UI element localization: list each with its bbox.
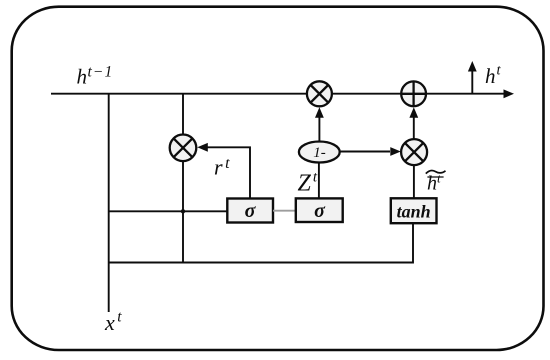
svg-text:σ: σ xyxy=(245,200,257,222)
arrowhead: main h output xyxy=(504,89,515,98)
wire: x^t vertical xyxy=(108,94,110,312)
junction dot xyxy=(181,209,185,213)
sigma box 2 xyxy=(296,198,343,222)
svg-text:1-: 1- xyxy=(313,145,326,161)
sigma box 1 xyxy=(227,199,273,223)
wire: arrow h-tilde gate up to adder xyxy=(413,114,415,139)
multiplier r-gate circle xyxy=(170,135,197,162)
wire: h^t up arrow xyxy=(471,70,473,94)
ellipse 1- xyxy=(299,142,340,163)
wire: arrow up from ellipse to z-gate xyxy=(318,114,320,142)
label h-tilde^t wide tilde xyxy=(426,170,446,173)
arrowhead up to adder xyxy=(409,107,418,118)
wire: main h line xyxy=(51,93,505,95)
wire: line B bottom xyxy=(109,223,413,262)
wire: line A to sigma1 xyxy=(109,210,228,212)
tanh box xyxy=(391,198,437,223)
wire: second vertical through r-gate xyxy=(182,94,184,263)
arrowhead up to z-gate xyxy=(315,107,324,118)
multiplier z-gate circle xyxy=(307,81,332,106)
svg-text:σ: σ xyxy=(314,200,326,222)
wire: r feedback with arrow into r-gate xyxy=(206,147,250,198)
multiplier h-tilde gate circle xyxy=(401,139,427,165)
arrowhead into h-tilde gate xyxy=(390,147,401,156)
wire: grey connector sigma1-sigma2 xyxy=(273,210,296,212)
wire: z vertical sigma2 to ellipse xyxy=(318,162,320,198)
wire: arrow ellipse to h-tilde gate xyxy=(340,151,390,153)
svg-text:tanh: tanh xyxy=(397,202,431,222)
label h-tilde^t overline xyxy=(427,176,443,178)
arrowhead h^t up xyxy=(468,61,477,72)
wire: tanh to h-tilde gate xyxy=(413,165,415,198)
arrowhead into r-gate xyxy=(197,143,208,152)
adder circle xyxy=(401,81,426,106)
